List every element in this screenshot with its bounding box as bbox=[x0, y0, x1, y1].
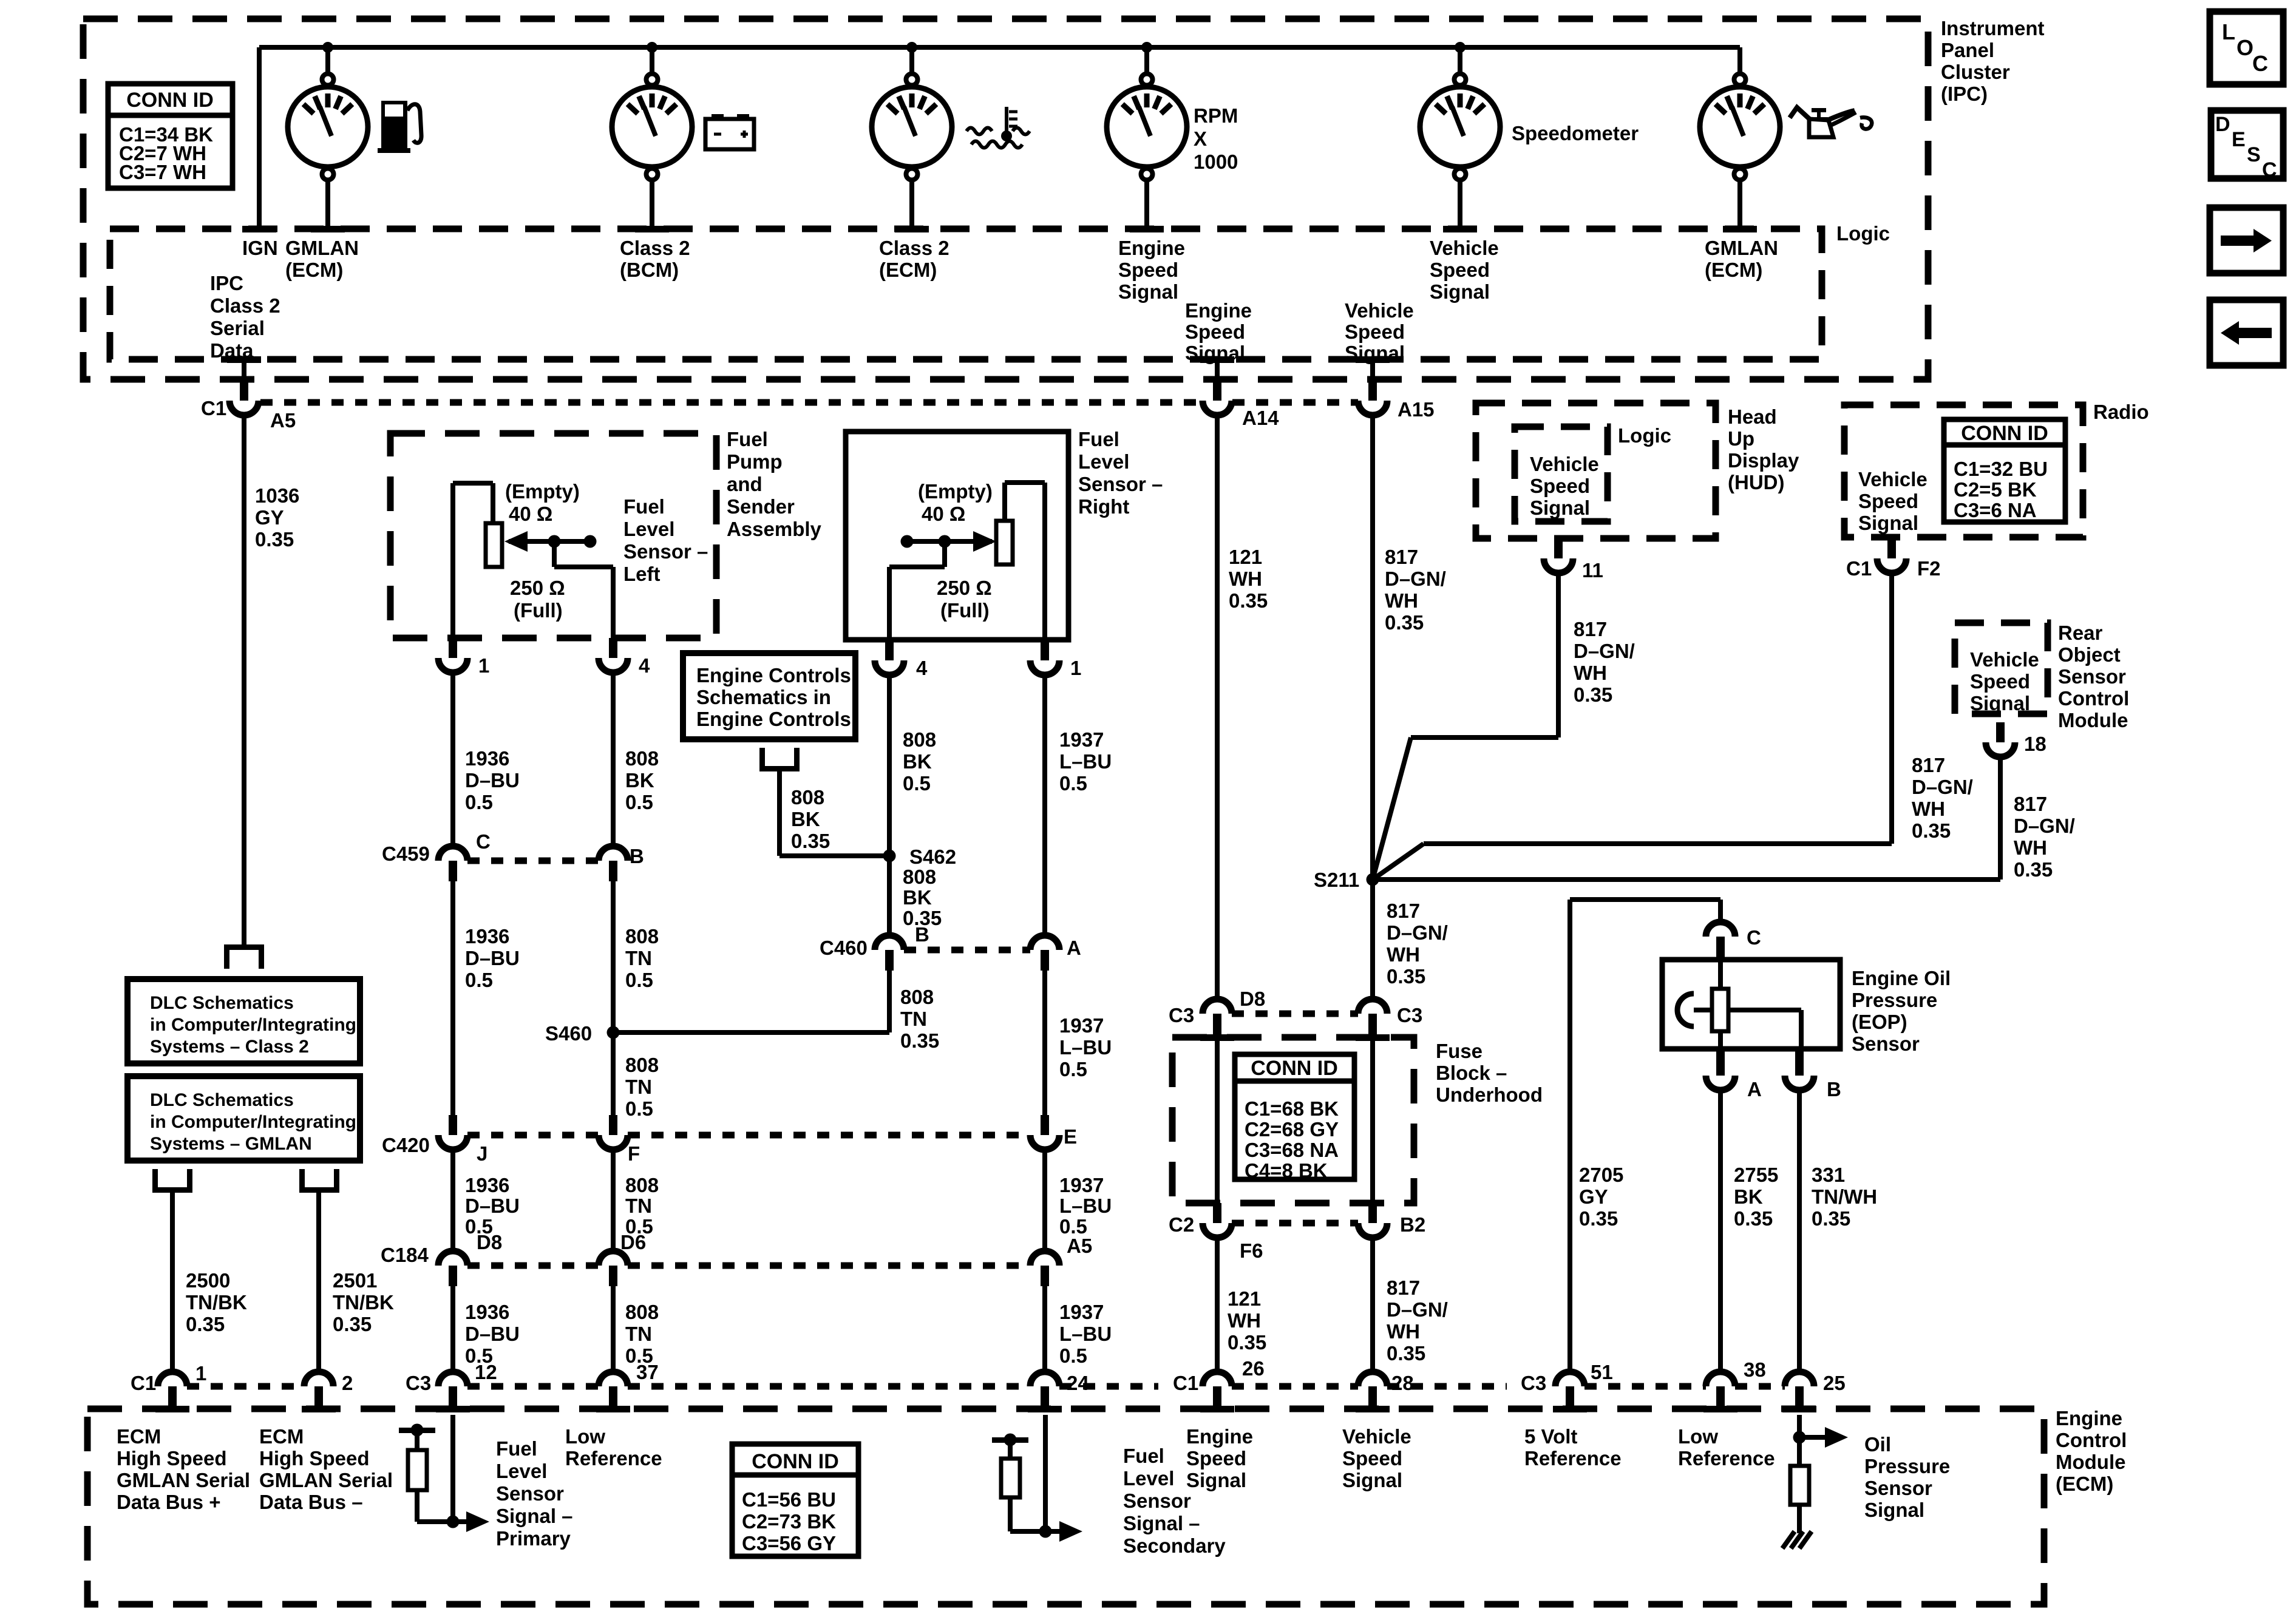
svg-text:S460: S460 bbox=[545, 1022, 592, 1045]
ECM connector pin 26 bbox=[1203, 1372, 1232, 1386]
Fuse CONN ID box bbox=[1235, 1054, 1354, 1179]
tachometer gauge G4 bbox=[1141, 42, 1152, 53]
connector C420 pin E bbox=[1041, 1115, 1049, 1135]
wire 2705 GY horizontal bbox=[1570, 897, 1720, 902]
svg-text:1: 1 bbox=[1070, 657, 1081, 679]
svg-text:D–GN/: D–GN/ bbox=[1387, 1298, 1448, 1321]
connector fuse C2 F6 bbox=[1213, 1203, 1221, 1223]
svg-text:Fuel: Fuel bbox=[623, 495, 665, 518]
svg-text:0.35: 0.35 bbox=[1229, 589, 1268, 612]
svg-text:Panel: Panel bbox=[1941, 39, 1994, 61]
wire IPC serial data to C1 bbox=[242, 359, 246, 379]
svg-text:(ECM): (ECM) bbox=[285, 259, 343, 281]
svg-text:L–BU: L–BU bbox=[1059, 1323, 1112, 1345]
svg-text:Level: Level bbox=[496, 1460, 547, 1482]
C459 dotted row bbox=[467, 858, 599, 864]
svg-text:0.35: 0.35 bbox=[1912, 819, 1951, 842]
svg-text:D–BU: D–BU bbox=[465, 769, 520, 792]
svg-text:GY: GY bbox=[1579, 1185, 1608, 1208]
svg-text:250 Ω: 250 Ω bbox=[937, 577, 992, 599]
svg-text:Level: Level bbox=[1123, 1467, 1174, 1490]
svg-text:C3: C3 bbox=[1521, 1372, 1546, 1394]
wire 1937 L-BU seg1 bbox=[1042, 675, 1047, 935]
svg-text:(IPC): (IPC) bbox=[1941, 83, 1988, 105]
wire fuel level primary bbox=[450, 1415, 455, 1522]
IPC harness dotted row bbox=[260, 399, 1203, 406]
connector A14 bbox=[1213, 381, 1221, 401]
connector EOP pin A bbox=[1716, 1049, 1725, 1076]
DESC nav box bbox=[2211, 110, 2283, 178]
svg-text:Sensor: Sensor bbox=[2058, 665, 2126, 688]
svg-text:Sensor: Sensor bbox=[1852, 1032, 1920, 1055]
svg-text:C1: C1 bbox=[201, 397, 226, 419]
fuel gauge G1 bbox=[322, 42, 333, 53]
svg-text:(ECM): (ECM) bbox=[879, 259, 937, 281]
svg-text:F6: F6 bbox=[1240, 1239, 1263, 1262]
svg-text:0.35: 0.35 bbox=[1734, 1207, 1773, 1230]
Engine Controls Schematics box bbox=[683, 653, 855, 739]
svg-text:Sensor –: Sensor – bbox=[1078, 473, 1163, 495]
svg-text:Radio: Radio bbox=[2093, 401, 2149, 423]
svg-text:C1=32 BU: C1=32 BU bbox=[1954, 458, 2048, 480]
page link bracket bus+ bbox=[152, 1187, 192, 1193]
svg-text:26: 26 bbox=[1242, 1357, 1265, 1380]
svg-text:A5: A5 bbox=[270, 409, 296, 432]
wire 817 radio bbox=[1889, 573, 1894, 844]
Fuel Pump and Sender Assembly dashed box bbox=[390, 433, 716, 638]
svg-text:D: D bbox=[2215, 113, 2230, 136]
wire 1936 D-BU seg2 bbox=[450, 881, 455, 1120]
svg-text:808: 808 bbox=[625, 747, 659, 770]
svg-text:Sensor: Sensor bbox=[1123, 1490, 1191, 1512]
svg-text:C3=68 NA: C3=68 NA bbox=[1245, 1139, 1339, 1161]
connector fuse B2 bbox=[1368, 1203, 1377, 1223]
svg-text:Module: Module bbox=[2058, 709, 2128, 731]
left sender wiper branch bbox=[552, 541, 557, 567]
svg-text:1936: 1936 bbox=[465, 1301, 509, 1323]
svg-text:(ECM): (ECM) bbox=[2056, 1473, 2113, 1495]
svg-text:808: 808 bbox=[625, 1301, 659, 1323]
Head Up Display dashed box bbox=[1476, 403, 1716, 538]
svg-text:808: 808 bbox=[625, 1054, 659, 1076]
svg-text:A: A bbox=[1067, 937, 1081, 959]
svg-text:O: O bbox=[2237, 35, 2254, 60]
svg-text:High Speed: High Speed bbox=[259, 1447, 370, 1470]
svg-text:D–GN/: D–GN/ bbox=[1912, 776, 1973, 798]
svg-text:C: C bbox=[2252, 51, 2268, 76]
svg-text:E: E bbox=[1064, 1125, 1077, 1148]
Rear Object Sensor dashed box bbox=[1955, 623, 2048, 714]
ECM connector pin 51 bbox=[1555, 1372, 1584, 1386]
svg-text:Up: Up bbox=[1728, 427, 1754, 450]
svg-text:1936: 1936 bbox=[465, 1174, 509, 1196]
primary pullup wire bbox=[415, 1490, 419, 1522]
wire 2501 TN/BK bbox=[316, 1193, 321, 1372]
svg-text:11: 11 bbox=[1582, 559, 1603, 581]
svg-text:0.5: 0.5 bbox=[903, 772, 931, 795]
wire 2705 GY vertical bbox=[1567, 900, 1572, 1372]
connector fuse C3 left bbox=[1203, 999, 1232, 1014]
svg-text:C3=56 GY: C3=56 GY bbox=[742, 1532, 836, 1554]
svg-text:Underhood: Underhood bbox=[1436, 1083, 1543, 1106]
right sender resistor bbox=[996, 521, 1013, 564]
svg-text:1936: 1936 bbox=[465, 925, 509, 947]
HUD logic dashed box bbox=[1515, 427, 1608, 521]
svg-text:Level: Level bbox=[623, 518, 674, 540]
svg-text:Speed: Speed bbox=[1530, 475, 1590, 497]
svg-text:1937: 1937 bbox=[1059, 1174, 1104, 1196]
svg-text:C460: C460 bbox=[820, 937, 868, 959]
wire 808 TN seg4 bbox=[611, 1150, 616, 1251]
left sender resistor bbox=[486, 523, 502, 567]
svg-text:BK: BK bbox=[791, 808, 820, 830]
svg-text:F: F bbox=[628, 1142, 640, 1165]
svg-text:A5: A5 bbox=[1067, 1235, 1092, 1257]
wire resistor to ground bbox=[1797, 1505, 1802, 1533]
svg-text:TN/BK: TN/BK bbox=[333, 1291, 394, 1314]
svg-text:C4=8 BK: C4=8 BK bbox=[1245, 1159, 1328, 1182]
svg-text:C1: C1 bbox=[1173, 1372, 1198, 1394]
secondary pullup stub bbox=[992, 1437, 1028, 1443]
svg-text:C2=5 BK: C2=5 BK bbox=[1954, 478, 2037, 501]
wire 817 seg2 bbox=[1370, 880, 1375, 999]
svg-text:C3: C3 bbox=[1397, 1004, 1422, 1026]
next arrow nav box bbox=[2210, 208, 2283, 273]
svg-text:Display: Display bbox=[1728, 449, 1799, 472]
svg-text:1936: 1936 bbox=[465, 747, 509, 770]
svg-text:37: 37 bbox=[636, 1361, 659, 1383]
svg-text:Logic: Logic bbox=[1618, 424, 1671, 447]
svg-text:Data Bus –: Data Bus – bbox=[259, 1491, 363, 1513]
wire 1936 D-BU seg4 bbox=[450, 1286, 455, 1372]
svg-text:WH: WH bbox=[2014, 836, 2047, 859]
fuel pump icon bbox=[381, 101, 407, 149]
wire 1936 D-BU seg3 bbox=[450, 1150, 455, 1251]
wire 817 seg3 bbox=[1370, 1238, 1375, 1372]
svg-text:CONN ID: CONN ID bbox=[1251, 1057, 1338, 1080]
page link bracket to DLC bbox=[224, 944, 264, 950]
svg-text:Signal: Signal bbox=[1118, 280, 1178, 303]
svg-text:J: J bbox=[477, 1142, 487, 1165]
svg-text:WH: WH bbox=[1385, 589, 1418, 612]
S211 bus wire bbox=[1373, 877, 2000, 882]
svg-text:Engine Controls: Engine Controls bbox=[696, 664, 851, 686]
DLC Schematics GMLAN box bbox=[127, 1076, 360, 1161]
svg-text:0.35: 0.35 bbox=[255, 528, 294, 551]
svg-text:Signal: Signal bbox=[1864, 1499, 1924, 1521]
svg-text:C2=68 GY: C2=68 GY bbox=[1245, 1118, 1339, 1141]
svg-text:L: L bbox=[2222, 19, 2235, 44]
svg-text:Fuel: Fuel bbox=[727, 428, 768, 450]
secondary signal junction bbox=[1039, 1525, 1052, 1538]
svg-text:C1: C1 bbox=[131, 1372, 156, 1394]
svg-text:WH: WH bbox=[1912, 798, 1945, 820]
svg-text:1937: 1937 bbox=[1059, 1014, 1104, 1037]
svg-text:L–BU: L–BU bbox=[1059, 1195, 1112, 1217]
svg-text:L–BU: L–BU bbox=[1059, 750, 1112, 773]
wire 817 HUD bbox=[1556, 573, 1561, 737]
svg-text:D–GN/: D–GN/ bbox=[2014, 815, 2075, 837]
wire 808 BK engine controls bbox=[777, 771, 782, 856]
svg-text:Block –: Block – bbox=[1436, 1062, 1507, 1084]
wire A14 drop from logic bbox=[1215, 359, 1220, 379]
svg-text:Vehicle: Vehicle bbox=[1858, 468, 1927, 490]
wire 1937 L-BU seg2 bbox=[1042, 971, 1047, 1120]
svg-text:808: 808 bbox=[903, 728, 936, 751]
svg-text:Reference: Reference bbox=[565, 1447, 662, 1470]
svg-text:(HUD): (HUD) bbox=[1728, 471, 1784, 493]
svg-text:4: 4 bbox=[916, 657, 928, 679]
svg-text:Systems – Class 2: Systems – Class 2 bbox=[150, 1037, 309, 1057]
DLC Schematics Class 2 box bbox=[127, 979, 360, 1063]
svg-text:0.35: 0.35 bbox=[1387, 965, 1425, 988]
svg-text:Low: Low bbox=[565, 1425, 605, 1448]
svg-text:GY: GY bbox=[255, 506, 284, 529]
wire 808 BK seg1 bbox=[611, 673, 616, 846]
oil can icon bbox=[1790, 107, 1813, 122]
svg-text:D8: D8 bbox=[1240, 988, 1265, 1010]
svg-text:0.5: 0.5 bbox=[1059, 1058, 1087, 1080]
svg-text:C1=56 BU: C1=56 BU bbox=[742, 1488, 836, 1511]
connector EOP pin C bbox=[1706, 922, 1735, 937]
svg-text:TN: TN bbox=[900, 1008, 927, 1030]
svg-text:C420: C420 bbox=[382, 1134, 430, 1156]
svg-text:(ECM): (ECM) bbox=[1705, 259, 1762, 281]
wire 817 ROS bbox=[1998, 757, 2003, 880]
svg-text:Signal: Signal bbox=[1186, 1469, 1246, 1491]
connector A15 bbox=[1368, 381, 1377, 401]
ECM connector pin 24 bbox=[1030, 1372, 1059, 1386]
svg-text:250 Ω: 250 Ω bbox=[510, 577, 565, 599]
oil pressure arrow bbox=[1799, 1435, 1825, 1440]
primary signal junction bbox=[447, 1516, 460, 1528]
svg-text:GMLAN Serial: GMLAN Serial bbox=[259, 1469, 393, 1491]
IPC logic inner dashed box bbox=[110, 229, 1822, 359]
wire 808 TN seg2 bbox=[611, 881, 616, 1032]
connector ROS pin 18 bbox=[1996, 722, 2005, 742]
svg-text:Engine Controls: Engine Controls bbox=[696, 708, 851, 730]
svg-text:0.35: 0.35 bbox=[333, 1313, 372, 1335]
LOC nav box bbox=[2210, 12, 2283, 84]
connector C1 F2 bbox=[1887, 537, 1896, 558]
svg-text:Fuel: Fuel bbox=[1123, 1445, 1164, 1467]
svg-text:121: 121 bbox=[1228, 1287, 1261, 1310]
svg-text:GMLAN: GMLAN bbox=[285, 237, 359, 259]
connector C420 pin J bbox=[449, 1115, 457, 1135]
ECM connector pin 25 bbox=[1785, 1372, 1814, 1386]
chassis ground bbox=[1782, 1531, 1795, 1548]
svg-text:1: 1 bbox=[195, 1362, 206, 1385]
svg-text:BK: BK bbox=[1734, 1185, 1763, 1208]
svg-text:Left: Left bbox=[623, 563, 661, 585]
svg-text:C3=7 WH: C3=7 WH bbox=[119, 161, 206, 183]
svg-text:Pressure: Pressure bbox=[1852, 989, 1937, 1011]
svg-text:Speed: Speed bbox=[1185, 320, 1245, 343]
battery icon bbox=[705, 119, 754, 149]
svg-text:Right: Right bbox=[1078, 495, 1129, 518]
svg-text:331: 331 bbox=[1812, 1164, 1845, 1186]
svg-text:Sensor: Sensor bbox=[496, 1482, 564, 1505]
ECM connector pin 28 bbox=[1358, 1372, 1387, 1386]
svg-text:51: 51 bbox=[1591, 1361, 1613, 1383]
wire 2755 BK bbox=[1718, 1090, 1723, 1372]
svg-text:(Full): (Full) bbox=[514, 599, 563, 622]
temperature gauge G3 bbox=[906, 42, 917, 53]
svg-text:WH: WH bbox=[1574, 662, 1607, 684]
svg-text:25: 25 bbox=[1823, 1372, 1846, 1394]
svg-text:IGN: IGN bbox=[242, 237, 278, 259]
svg-text:Signal: Signal bbox=[1530, 497, 1590, 519]
svg-text:X: X bbox=[1194, 127, 1207, 150]
svg-text:Class 2: Class 2 bbox=[620, 237, 690, 259]
svg-text:Sensor: Sensor bbox=[1864, 1477, 1932, 1499]
svg-text:and: and bbox=[727, 473, 763, 495]
svg-text:Head: Head bbox=[1728, 405, 1777, 428]
fuse C3 dotted row bbox=[1232, 1011, 1358, 1017]
connector pin 1 right bbox=[1041, 640, 1049, 660]
svg-text:D6: D6 bbox=[620, 1231, 646, 1253]
svg-text:0.5: 0.5 bbox=[1059, 1344, 1087, 1367]
svg-text:808: 808 bbox=[625, 925, 659, 947]
wire A15 drop from logic bbox=[1370, 359, 1375, 379]
svg-text:Class 2: Class 2 bbox=[879, 237, 949, 259]
ECM connector pin 1 bbox=[158, 1372, 187, 1386]
svg-text:A14: A14 bbox=[1242, 407, 1279, 429]
page link bracket bus- bbox=[299, 1187, 339, 1193]
svg-text:C: C bbox=[476, 830, 491, 853]
right sender wiper arrow bbox=[907, 539, 992, 544]
svg-text:C3=6 NA: C3=6 NA bbox=[1954, 499, 2037, 521]
svg-text:817: 817 bbox=[2014, 793, 2047, 815]
svg-text:2705: 2705 bbox=[1579, 1164, 1623, 1186]
svg-text:0.5: 0.5 bbox=[625, 969, 653, 991]
Radio CONN ID box bbox=[1944, 419, 2065, 522]
svg-text:TN: TN bbox=[625, 1323, 652, 1345]
Fuel Level Sensor Right box bbox=[846, 432, 1068, 640]
splice S462 bbox=[883, 850, 896, 863]
connector C460 pin A bbox=[1030, 935, 1059, 950]
C420 dotted row bbox=[467, 1132, 599, 1139]
back arrow nav box bbox=[2210, 300, 2283, 365]
svg-text:A: A bbox=[1747, 1078, 1762, 1100]
svg-text:B: B bbox=[1827, 1078, 1841, 1100]
svg-text:38: 38 bbox=[1744, 1358, 1766, 1381]
connector EOP pin B bbox=[1795, 1049, 1804, 1076]
svg-text:DLC Schematics: DLC Schematics bbox=[150, 993, 294, 1013]
wire 121 WH seg1 bbox=[1215, 415, 1220, 999]
svg-text:A15: A15 bbox=[1398, 398, 1435, 421]
coolant temperature icon bbox=[1005, 107, 1008, 132]
right sender wiring bbox=[1042, 483, 1047, 640]
svg-text:Secondary: Secondary bbox=[1123, 1534, 1226, 1557]
svg-text:C1=68 BK: C1=68 BK bbox=[1245, 1097, 1339, 1120]
svg-text:817: 817 bbox=[1574, 618, 1607, 640]
svg-text:Control: Control bbox=[2058, 687, 2129, 710]
svg-text:(Full): (Full) bbox=[940, 599, 990, 622]
wire 2500 TN/BK bbox=[170, 1193, 175, 1372]
svg-text:F2: F2 bbox=[1917, 557, 1941, 580]
IGN wire drop bbox=[257, 47, 262, 229]
svg-text:WH: WH bbox=[1387, 943, 1420, 966]
wire 1036 GY bbox=[242, 415, 246, 946]
svg-text:CONN ID: CONN ID bbox=[1961, 422, 2048, 445]
svg-text:D–GN/: D–GN/ bbox=[1387, 921, 1448, 944]
connector C420 pin F bbox=[609, 1115, 617, 1135]
svg-text:CONN ID: CONN ID bbox=[126, 89, 214, 112]
svg-text:Engine: Engine bbox=[1118, 237, 1185, 259]
svg-text:1000: 1000 bbox=[1194, 151, 1238, 173]
svg-text:Data Bus +: Data Bus + bbox=[117, 1491, 220, 1513]
wire 1937 L-BU seg4 bbox=[1042, 1286, 1047, 1372]
svg-text:S462: S462 bbox=[909, 846, 956, 868]
svg-text:C459: C459 bbox=[382, 842, 430, 865]
svg-text:Vehicle: Vehicle bbox=[1345, 299, 1414, 322]
svg-text:5 Volt: 5 Volt bbox=[1524, 1425, 1577, 1448]
svg-text:ECM: ECM bbox=[117, 1425, 161, 1448]
wire 808 TN seg3 bbox=[611, 1032, 616, 1115]
svg-text:Engine: Engine bbox=[1185, 299, 1252, 322]
svg-text:4: 4 bbox=[639, 654, 650, 677]
ECM connector pin 37 bbox=[599, 1372, 628, 1386]
splice S211 bbox=[1367, 873, 1379, 886]
svg-text:Vehicle: Vehicle bbox=[1342, 1425, 1411, 1448]
IPC CONN ID box bbox=[108, 84, 233, 188]
svg-text:C: C bbox=[2262, 158, 2277, 181]
svg-text:0.35: 0.35 bbox=[2014, 858, 2053, 881]
svg-text:Vehicle: Vehicle bbox=[1530, 453, 1599, 475]
svg-text:C: C bbox=[1747, 926, 1761, 949]
svg-text:Fuel: Fuel bbox=[1078, 428, 1119, 450]
Fuse Block dashed box bbox=[1172, 1037, 1414, 1203]
Engine Control Module dashed box bbox=[87, 1409, 2044, 1604]
svg-text:D–BU: D–BU bbox=[465, 1195, 520, 1217]
svg-text:C3: C3 bbox=[1169, 1004, 1194, 1026]
svg-text:817: 817 bbox=[1385, 546, 1418, 568]
svg-text:Rear: Rear bbox=[2058, 622, 2103, 644]
speedometer gauge G5 bbox=[1455, 42, 1466, 53]
svg-text:Signal: Signal bbox=[1970, 692, 2030, 714]
EOP internal wiring bbox=[1694, 1008, 1712, 1012]
svg-text:C2=73 BK: C2=73 BK bbox=[742, 1510, 836, 1533]
svg-text:0.35: 0.35 bbox=[900, 1029, 939, 1052]
ECM connector pin 12 bbox=[438, 1372, 467, 1386]
svg-text:Signal –: Signal – bbox=[496, 1505, 573, 1527]
svg-text:40 Ω: 40 Ω bbox=[509, 503, 552, 525]
svg-text:121: 121 bbox=[1229, 546, 1262, 568]
svg-text:B: B bbox=[630, 845, 644, 867]
svg-text:C184: C184 bbox=[381, 1244, 429, 1266]
svg-text:0.35: 0.35 bbox=[1574, 683, 1612, 706]
connector C460 pin B bbox=[875, 935, 904, 950]
svg-text:0.35: 0.35 bbox=[791, 830, 830, 852]
connector C459 pin C bbox=[438, 846, 467, 861]
fuse C2 dotted row bbox=[1232, 1220, 1358, 1227]
svg-text:D8: D8 bbox=[477, 1231, 502, 1253]
svg-text:ECM: ECM bbox=[259, 1425, 304, 1448]
page link bracket engine controls bbox=[759, 766, 800, 771]
svg-text:Cluster: Cluster bbox=[1941, 61, 2010, 83]
svg-text:0.35: 0.35 bbox=[1579, 1207, 1618, 1230]
ECM connector pin 2 bbox=[304, 1372, 333, 1386]
ECM oil pressure resistor bbox=[1790, 1466, 1809, 1505]
svg-text:Vehicle: Vehicle bbox=[1970, 648, 2039, 671]
svg-text:Schematics in: Schematics in bbox=[696, 686, 831, 708]
svg-text:D–BU: D–BU bbox=[465, 1323, 520, 1345]
svg-text:Speed: Speed bbox=[1970, 670, 2030, 693]
Instrument Panel Cluster (IPC) outer dashed box bbox=[83, 19, 1928, 379]
GMLAN gauge G6 bbox=[1737, 47, 1742, 74]
svg-text:High Speed: High Speed bbox=[117, 1447, 227, 1470]
